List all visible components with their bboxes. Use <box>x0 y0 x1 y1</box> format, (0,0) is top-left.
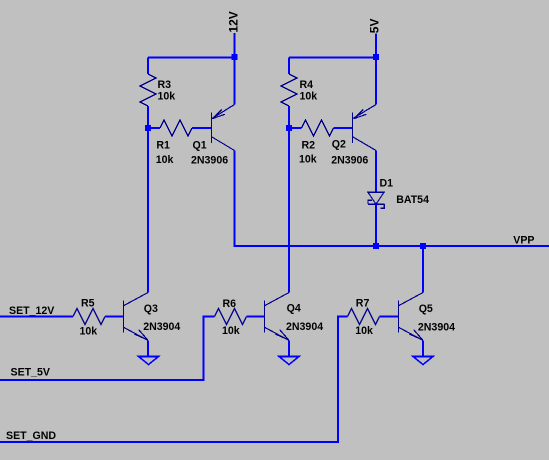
ground Q4 <box>279 357 299 365</box>
wire R6 right lead <box>247 316 265 318</box>
svg-text:Q5: Q5 <box>419 303 433 315</box>
resistor R3 <box>140 74 156 106</box>
svg-text:SET_5V: SET_5V <box>11 367 50 379</box>
wire Q1 emitter to 12V <box>234 58 236 105</box>
transistor Q2 base bar <box>352 113 354 144</box>
wire R7 right lead <box>380 316 399 318</box>
ground Q5 <box>413 357 433 365</box>
transistor Q4 emitter arrow <box>275 330 288 340</box>
svg-text:10k: 10k <box>222 325 240 337</box>
resistor R5 <box>73 309 105 325</box>
ground Q3 <box>139 357 159 365</box>
svg-text:2N3906: 2N3906 <box>191 154 228 166</box>
wire R5 right lead <box>105 316 124 318</box>
transistor Q1 emitter <box>212 105 235 119</box>
transistor Q4 base bar <box>264 301 266 333</box>
transistor Q2 emitter arrow <box>354 109 366 118</box>
svg-text:2N3906: 2N3906 <box>331 155 368 167</box>
resistor R4 <box>281 74 297 106</box>
transistor Q5 emitter arrow <box>409 330 422 340</box>
svg-text:Q3: Q3 <box>144 303 158 315</box>
wire Q2 emitter to 5V <box>375 58 377 105</box>
wire Q1 collector to VPP rail <box>235 151 549 247</box>
wire Q3 emitter to ground <box>147 341 149 357</box>
resistor R6 <box>215 309 247 325</box>
junction R4/R2 node <box>286 125 292 131</box>
transistor Q3 emitter arrow <box>134 330 147 340</box>
wire D1 to VPP rail <box>375 204 377 246</box>
wire top-left rail 12V <box>148 57 235 59</box>
svg-text:R5: R5 <box>81 298 95 310</box>
svg-text:SET_GND: SET_GND <box>6 430 56 442</box>
diode D1 cathode bar <box>368 203 384 205</box>
wire column B drop to Q4 collector <box>288 128 290 293</box>
wire R3 bottom lead <box>147 106 149 128</box>
svg-text:Q2: Q2 <box>332 139 346 151</box>
wire R1 left lead <box>148 127 160 129</box>
svg-text:R1: R1 <box>156 140 170 152</box>
wire R2 left lead <box>289 127 302 129</box>
svg-text:2N3904: 2N3904 <box>143 321 180 333</box>
transistor Q2 emitter <box>353 105 376 119</box>
svg-text:10k: 10k <box>156 154 174 166</box>
wire column A drop to Q3 collector <box>147 128 149 293</box>
resistor R7 <box>348 309 380 325</box>
svg-text:D1: D1 <box>380 177 394 189</box>
svg-text:12V: 12V <box>226 11 240 32</box>
svg-text:Q1: Q1 <box>193 140 207 152</box>
wire R4 top lead <box>288 58 290 75</box>
wire top-right rail 5V <box>289 57 376 59</box>
svg-text:BAT54: BAT54 <box>396 194 429 206</box>
svg-text:R6: R6 <box>223 298 237 310</box>
junction at 5V rail <box>373 54 379 60</box>
junction R3/R1 node <box>145 125 151 131</box>
wire 5V stub <box>375 34 377 58</box>
diode D1 left hook <box>368 200 372 204</box>
transistor Q1 base bar <box>211 113 213 144</box>
svg-text:5V: 5V <box>368 19 382 34</box>
transistor Q1 emitter arrow <box>213 109 225 118</box>
svg-text:R7: R7 <box>356 298 370 310</box>
junction D1/VPP <box>373 243 379 249</box>
svg-text:Q4: Q4 <box>287 303 301 315</box>
wire Q4 emitter to ground <box>288 341 290 357</box>
wire Q5 emitter to ground <box>422 341 424 357</box>
wire R1 right lead <box>192 127 212 129</box>
resistor R2 <box>302 120 334 136</box>
junction at 12V rail <box>232 54 238 60</box>
wire 12V stub <box>234 33 236 58</box>
resistor R1 <box>160 120 192 136</box>
svg-text:2N3904: 2N3904 <box>286 321 323 333</box>
junction Q5/VPP <box>420 243 426 249</box>
transistor Q5 collector <box>399 293 423 306</box>
svg-text:10k: 10k <box>80 326 98 338</box>
svg-text:10k: 10k <box>158 91 176 103</box>
wire R3 top lead <box>147 58 149 75</box>
transistor Q3 base bar <box>123 301 125 333</box>
transistor Q1 collector <box>212 137 235 151</box>
transistor Q3 collector <box>124 293 148 306</box>
svg-text:R2: R2 <box>302 139 316 151</box>
svg-text:R4: R4 <box>300 79 314 91</box>
transistor Q5 base bar <box>398 301 400 333</box>
diode D1 triangle <box>368 192 384 204</box>
wire Q2 collector to D1 <box>375 151 377 193</box>
svg-text:SET_12V: SET_12V <box>9 305 54 317</box>
svg-text:10k: 10k <box>299 153 317 165</box>
transistor Q4 emitter <box>265 328 289 341</box>
svg-text:2N3904: 2N3904 <box>418 322 455 334</box>
svg-text:10k: 10k <box>355 325 373 337</box>
wire SET_12V <box>0 316 73 318</box>
wire R2 right lead <box>334 127 353 129</box>
svg-text:R3: R3 <box>158 79 172 91</box>
wire VPP to Q5 collector <box>422 246 424 293</box>
diode D1 right hook <box>380 204 384 208</box>
transistor Q2 collector <box>353 137 376 151</box>
transistor Q5 emitter <box>399 328 423 341</box>
transistor Q3 emitter <box>124 328 148 341</box>
transistor Q4 collector <box>265 293 289 306</box>
wire R4 bottom lead <box>288 106 290 128</box>
wire SET_5V <box>0 317 215 380</box>
wire SET_GND <box>0 317 348 443</box>
svg-text:10k: 10k <box>300 91 318 103</box>
svg-text:VPP: VPP <box>513 235 534 247</box>
